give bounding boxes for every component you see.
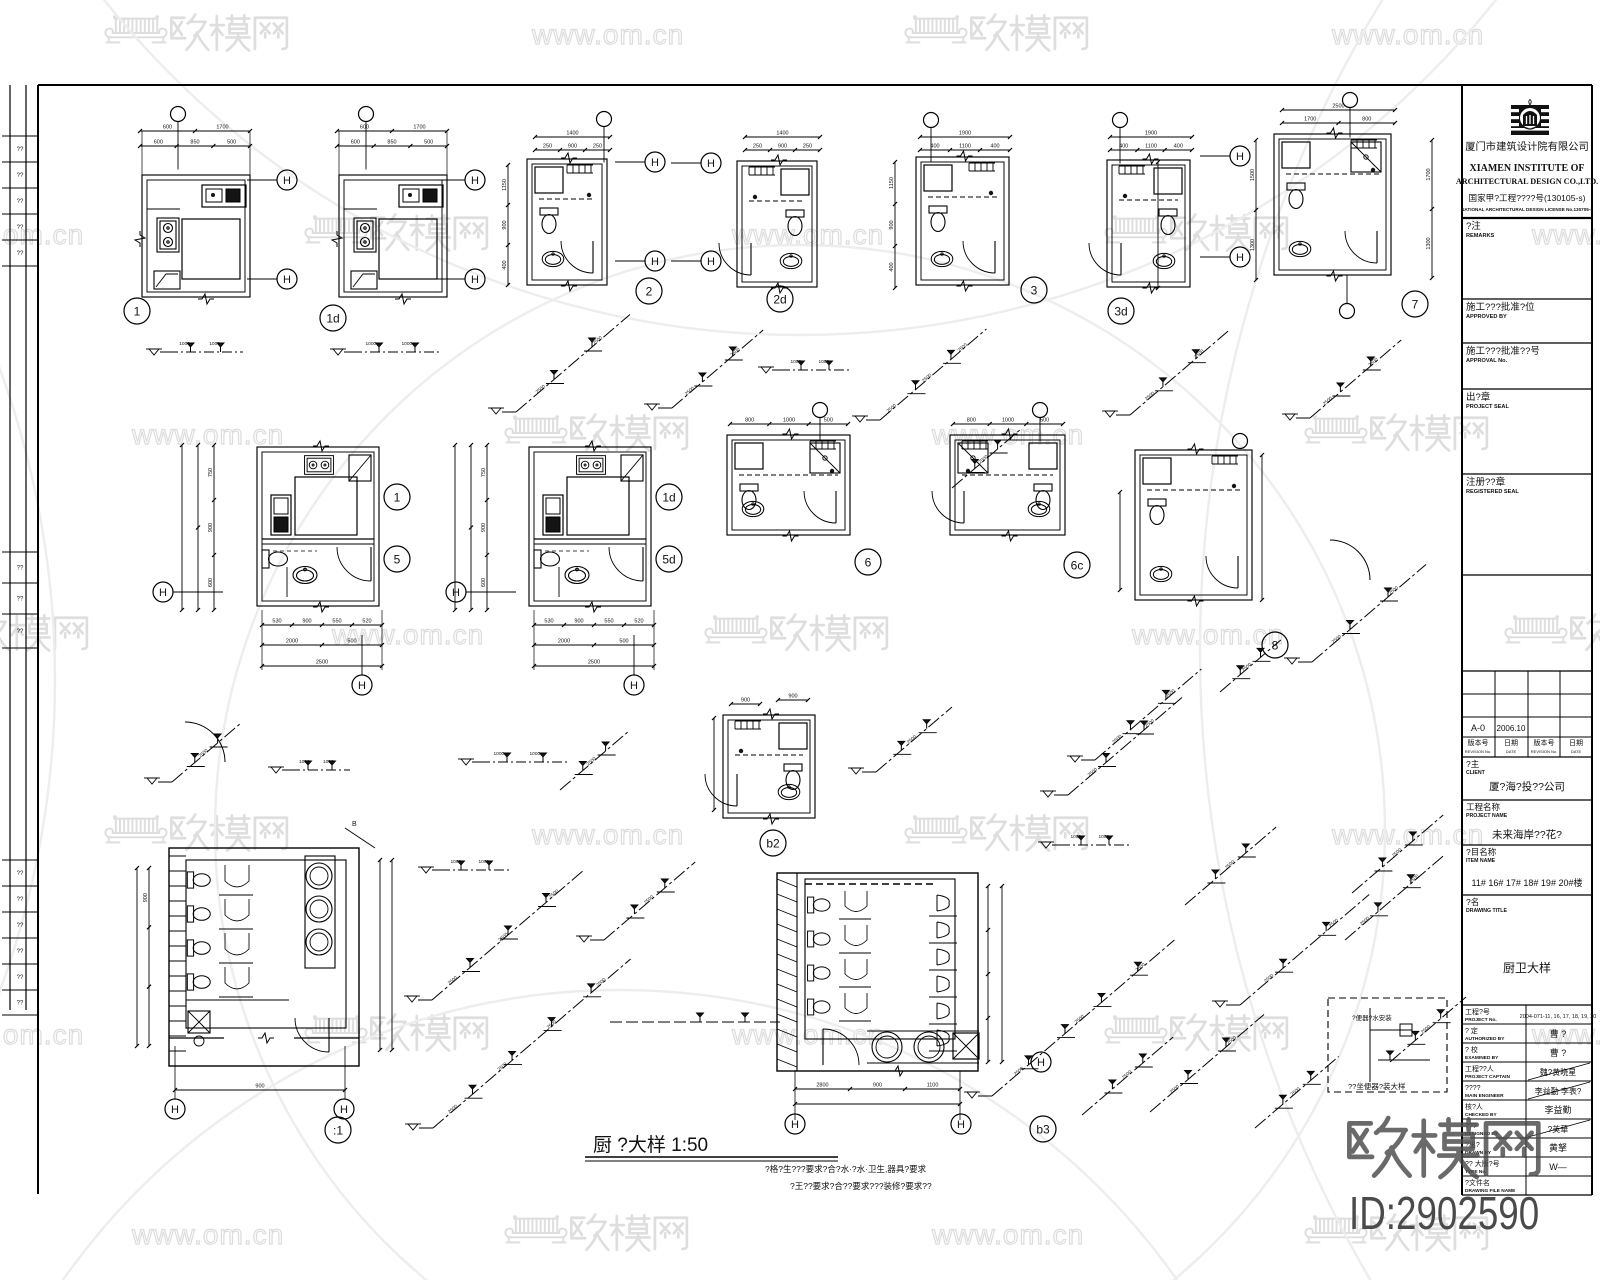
riser diagram at 1352,893	[1352, 815, 1443, 893]
svg-text:1d: 1d	[662, 491, 675, 505]
svg-text:1900: 1900	[959, 131, 971, 137]
label circle b3	[1030, 1116, 1056, 1142]
bathroom plan unit at 1274,134	[1274, 134, 1391, 275]
bathroom plan unit at 727,435	[727, 435, 850, 535]
svg-text:??: ??	[17, 173, 24, 179]
svg-text:??坐便器?装大样: ??坐便器?装大样	[1348, 1081, 1406, 1091]
svg-text:H: H	[283, 274, 291, 286]
svg-text:1000: 1000	[402, 341, 413, 347]
svg-text:H: H	[1236, 252, 1244, 264]
svg-text:400: 400	[1174, 144, 1183, 150]
svg-text:H: H	[957, 1119, 965, 1131]
riser diagram at 1068,795	[1068, 698, 1182, 796]
svg-text:900: 900	[143, 893, 149, 902]
svg-text:400: 400	[889, 262, 895, 271]
riser diagram at 1240,1005	[1240, 895, 1369, 1006]
svg-text:1000: 1000	[451, 859, 462, 865]
svg-text:APPROVED BY: APPROVED BY	[1466, 314, 1507, 320]
svg-text:900: 900	[302, 619, 311, 625]
riser diagram at 992,1096	[992, 940, 1174, 1096]
svg-text:?目名称: ?目名称	[1466, 847, 1497, 857]
svg-text:500: 500	[824, 418, 833, 424]
svg-text:XIAMEN INSTITUTE OF: XIAMEN INSTITUTE OF	[1469, 163, 1584, 174]
svg-text:900: 900	[741, 698, 750, 704]
svg-text:??: ??	[17, 597, 24, 603]
svg-text:1: 1	[134, 305, 141, 319]
svg-text:APPROVAL No.: APPROVAL No.	[1466, 358, 1508, 364]
svg-text:900: 900	[788, 694, 797, 700]
large toilet plan T1	[169, 848, 359, 1066]
svg-text:PROJECT No.: PROJECT No.	[1465, 1017, 1497, 1023]
riser diagram at 1390,1062	[1390, 997, 1466, 1062]
svg-text:??: ??	[17, 199, 24, 205]
svg-text:900: 900	[208, 523, 214, 532]
riser symbol at 440,870	[440, 869, 510, 871]
riser symbol at 1060,845	[1060, 844, 1130, 846]
svg-text:REVISION No.: REVISION No.	[1531, 749, 1557, 754]
svg-text:1000: 1000	[479, 859, 490, 865]
svg-text:600: 600	[360, 125, 369, 131]
svg-text:A-0: A-0	[1471, 723, 1485, 733]
svg-text:REGISTERED SEAL: REGISTERED SEAL	[1466, 489, 1519, 495]
svg-text:1400: 1400	[776, 131, 788, 137]
svg-text:?? 大版?号: ?? 大版?号	[1465, 1159, 1500, 1168]
svg-text:1000: 1000	[819, 359, 830, 365]
bathroom plan unit at 916,157	[916, 157, 1009, 285]
svg-text:李益勤: 李益勤	[1544, 1104, 1571, 1115]
svg-text:DATE: DATE	[1571, 749, 1582, 754]
svg-text:600: 600	[208, 578, 214, 587]
kitchen plan unit at 339,175	[339, 175, 447, 297]
combo kitchen-bath plan at 529,447	[529, 447, 651, 606]
left binding strip	[9, 85, 11, 1010]
svg-text:版本号: 版本号	[1468, 738, 1489, 747]
svg-text:1000: 1000	[179, 341, 190, 347]
big dark omwang watermark	[1349, 1118, 1538, 1177]
svg-text:b2: b2	[766, 837, 780, 851]
riser diagram at 1345,940	[1345, 856, 1444, 941]
svg-text:1000: 1000	[323, 759, 334, 765]
mid row H bubbles	[153, 582, 173, 602]
svg-text:1300: 1300	[1250, 239, 1256, 251]
svg-text:?王??要求?合??要求???装修?要求??: ?王??要求?合??要求???装修?要求??	[790, 1181, 932, 1191]
svg-text:1000: 1000	[530, 751, 541, 757]
svg-text:厨 ?大样 1:50: 厨 ?大样 1:50	[593, 1134, 708, 1156]
svg-text:1000: 1000	[366, 341, 377, 347]
svg-text:REVISION No.: REVISION No.	[1465, 749, 1491, 754]
svg-text:??: ??	[17, 975, 24, 981]
svg-text:800: 800	[967, 418, 976, 424]
svg-text:CHECKED BY: CHECKED BY	[1465, 1112, 1498, 1118]
svg-text:厦?海?投??公司: 厦?海?投??公司	[1489, 780, 1565, 793]
svg-text:b3: b3	[1036, 1123, 1050, 1137]
svg-text:1000: 1000	[1071, 834, 1082, 840]
svg-text:500: 500	[347, 639, 356, 645]
riser diagram at 1130,415	[1130, 331, 1229, 416]
svg-text:H: H	[707, 158, 715, 170]
svg-text:?注: ?注	[1466, 220, 1481, 232]
svg-text:H: H	[1037, 1057, 1045, 1069]
svg-text:H: H	[358, 680, 366, 692]
svg-text:900: 900	[889, 220, 895, 229]
svg-text:530: 530	[272, 619, 281, 625]
svg-text:2500: 2500	[1332, 104, 1344, 110]
riser symbol at 780,370	[780, 369, 850, 371]
svg-text:H: H	[340, 1104, 348, 1116]
svg-text:550: 550	[332, 619, 341, 625]
svg-text:工程??人: 工程??人	[1465, 1064, 1494, 1073]
svg-text:1500: 1500	[1250, 169, 1256, 181]
svg-text:??: ??	[17, 251, 24, 257]
svg-text:??: ??	[17, 871, 24, 877]
svg-text:??: ??	[17, 1001, 24, 1007]
svg-text:900: 900	[873, 1083, 882, 1089]
svg-text:400: 400	[990, 144, 999, 150]
riser diagram at 432,1000	[432, 870, 584, 1000]
svg-text:??: ??	[17, 225, 24, 231]
svg-text:?主: ?主	[1466, 759, 1480, 769]
svg-text:H: H	[159, 587, 167, 599]
svg-text:ITEM NAME: ITEM NAME	[1466, 858, 1496, 864]
svg-text:B: B	[352, 821, 357, 828]
svg-text:MAIN ENGINEER: MAIN ENGINEER	[1465, 1093, 1504, 1099]
svg-text:3d: 3d	[1114, 305, 1127, 319]
svg-text:??: ??	[17, 629, 24, 635]
svg-text:5d: 5d	[662, 553, 675, 567]
title block	[1461, 85, 1463, 1195]
svg-text:1150: 1150	[889, 177, 895, 189]
svg-text:??: ??	[17, 949, 24, 955]
riser symbol at 168,352	[168, 351, 243, 353]
svg-text:1900: 1900	[1145, 131, 1157, 137]
riser symbol at 290,770	[290, 769, 350, 771]
svg-text:400: 400	[502, 260, 508, 269]
riser diagram at 1185,905	[1185, 827, 1276, 905]
svg-text:250: 250	[593, 144, 602, 150]
svg-text:400: 400	[930, 144, 939, 150]
riser diagram at 1220,692	[1220, 640, 1281, 692]
svg-text:????: ????	[1465, 1085, 1481, 1092]
svg-text:REMARKS: REMARKS	[1466, 233, 1495, 239]
svg-text:H: H	[651, 157, 659, 169]
svg-text:1000: 1000	[494, 751, 505, 757]
svg-text:850: 850	[387, 140, 396, 146]
svg-text:H: H	[452, 587, 460, 599]
svg-text:900: 900	[778, 144, 787, 150]
svg-text:DATE: DATE	[1506, 749, 1517, 754]
svg-text:900: 900	[574, 619, 583, 625]
riser diagram at 1082,1115	[1082, 1037, 1173, 1115]
svg-text:2500: 2500	[588, 660, 600, 666]
svg-text:H: H	[171, 1104, 179, 1116]
svg-text:6: 6	[865, 556, 872, 570]
svg-text:3: 3	[1031, 284, 1038, 298]
dimension clusters	[140, 130, 250, 132]
svg-text:850: 850	[190, 140, 199, 146]
svg-text:1300: 1300	[1426, 237, 1432, 249]
riser diagram at 604,940	[604, 862, 695, 940]
svg-text:500: 500	[424, 140, 433, 146]
svg-text:?文件名: ?文件名	[1465, 1178, 1490, 1187]
svg-text:2800: 2800	[816, 1083, 828, 1089]
svg-text:H: H	[1236, 151, 1244, 163]
svg-text:PROJECT CAPTAIN: PROJECT CAPTAIN	[1465, 1074, 1510, 1080]
svg-text:PROJECT SEAL: PROJECT SEAL	[1466, 404, 1509, 410]
svg-text:2000: 2000	[286, 639, 298, 645]
svg-text:H: H	[471, 175, 479, 187]
svg-text:900: 900	[481, 523, 487, 532]
riser diagram at 1310,418	[1310, 340, 1401, 418]
label circle :1	[325, 1117, 351, 1143]
svg-text:1000: 1000	[209, 341, 220, 347]
svg-text:未来海岸??花?: 未来海岸??花?	[1492, 828, 1562, 841]
svg-text:11# 16# 17# 18# 19# 20#楼: 11# 16# 17# 18# 19# 20#楼	[1472, 877, 1583, 888]
svg-text:核?人: 核?人	[1465, 1102, 1483, 1111]
bathroom plan unit at 737,161	[737, 161, 817, 287]
bathroom plan unit at 950,435	[950, 435, 1065, 535]
svg-text:1400: 1400	[566, 131, 578, 137]
svg-text:1700: 1700	[413, 125, 425, 131]
svg-text:AUTHORIZED BY: AUTHORIZED BY	[1465, 1036, 1505, 1042]
svg-text:2: 2	[646, 285, 653, 299]
label circles	[124, 298, 150, 324]
bathroom plan unit at 527,159	[527, 159, 607, 285]
svg-text:2500: 2500	[316, 660, 328, 666]
svg-text:出?章: 出?章	[1466, 391, 1491, 403]
svg-text:750: 750	[481, 468, 487, 477]
svg-text:6c: 6c	[1071, 559, 1084, 573]
svg-text:1150: 1150	[502, 179, 508, 191]
riser diagram at 516,412	[516, 315, 630, 413]
svg-text:H: H	[707, 256, 715, 268]
svg-text:??: ??	[17, 897, 24, 903]
dashed detail box	[1328, 998, 1447, 1092]
svg-text::1: :1	[333, 1124, 343, 1138]
svg-text:厦门市建筑设计院有限公司: 厦门市建筑设计院有限公司	[1465, 140, 1589, 153]
bathroom plan unit at 1107,160	[1107, 160, 1190, 287]
svg-text:1000: 1000	[1002, 418, 1014, 424]
svg-text:1100: 1100	[1145, 144, 1157, 150]
svg-text:工程名称: 工程名称	[1466, 802, 1501, 812]
svg-text:1100: 1100	[959, 144, 971, 150]
bathroom plan unit at 723,715	[723, 715, 815, 818]
svg-text:黄拏: 黄拏	[1549, 1142, 1567, 1153]
riser diagram at 880,420	[880, 329, 986, 420]
svg-text:ID:2902590: ID:2902590	[1349, 1187, 1539, 1239]
svg-text:400: 400	[1119, 144, 1128, 150]
institute logo	[1511, 105, 1549, 135]
svg-text:1000: 1000	[783, 418, 795, 424]
svg-text:CLIENT: CLIENT	[1466, 770, 1486, 776]
svg-text:H: H	[791, 1119, 799, 1131]
riser diagram at 172,782	[172, 724, 240, 783]
svg-text:1100: 1100	[927, 1083, 939, 1089]
svg-text:500: 500	[619, 639, 628, 645]
sheet frame	[38, 84, 1592, 86]
svg-text:750: 750	[208, 468, 214, 477]
svg-text:1: 1	[394, 491, 401, 505]
grid bubbles	[171, 107, 186, 122]
svg-text:550: 550	[604, 619, 613, 625]
svg-text:H: H	[651, 256, 659, 268]
svg-text:H: H	[471, 274, 479, 286]
svg-text:250: 250	[543, 144, 552, 150]
svg-text:工程?号: 工程?号	[1465, 1007, 1490, 1016]
svg-text:H: H	[283, 175, 291, 187]
svg-text:900: 900	[502, 220, 508, 229]
riser diagram at 560,790	[560, 732, 628, 791]
svg-text:PROJECT NAME: PROJECT NAME	[1466, 813, 1508, 819]
svg-text:厨卫大样: 厨卫大样	[1503, 960, 1551, 975]
svg-text:520: 520	[634, 619, 643, 625]
svg-text:2000: 2000	[558, 639, 570, 645]
svg-text:曹 ?: 曹 ?	[1550, 1047, 1567, 1058]
svg-text:5: 5	[394, 553, 401, 567]
svg-text:DRAWING TITLE: DRAWING TITLE	[1466, 908, 1507, 914]
svg-text:注册??章: 注册??章	[1466, 476, 1506, 488]
svg-text:7: 7	[1412, 298, 1419, 312]
riser diagram at 1150,1112	[1150, 1015, 1264, 1113]
svg-text:??: ??	[17, 923, 24, 929]
svg-text:? 校: ? 校	[1465, 1045, 1478, 1054]
svg-text:? 定: ? 定	[1465, 1026, 1478, 1035]
svg-text:2006.10: 2006.10	[1497, 724, 1526, 733]
svg-text:250: 250	[803, 144, 812, 150]
svg-text:900: 900	[255, 1084, 264, 1090]
svg-text:500: 500	[227, 140, 236, 146]
svg-text:W—: W—	[1549, 1162, 1567, 1172]
svg-text:??: ??	[17, 147, 24, 153]
watermark giant arcs	[0, 0, 1600, 335]
kitchen plan unit at 142,175	[142, 175, 250, 297]
svg-text:1700: 1700	[1426, 168, 1432, 180]
svg-text:日期: 日期	[1569, 739, 1583, 747]
svg-text:1000: 1000	[1099, 834, 1110, 840]
svg-text:2004-071-11, 16, 17, 18, 19, 2: 2004-071-11, 16, 17, 18, 19, 20	[1520, 1014, 1597, 1020]
svg-text:600: 600	[163, 125, 172, 131]
svg-text:1000: 1000	[791, 359, 802, 365]
svg-text:曹 ?: 曹 ?	[1550, 1028, 1567, 1039]
riser diagram at 952,488	[952, 430, 1020, 489]
svg-text:800: 800	[1362, 117, 1371, 123]
svg-text:??: ??	[17, 566, 24, 572]
svg-text:施工???批准??号: 施工???批准??号	[1466, 345, 1540, 357]
svg-text:国家甲?工程????号(130105-s): 国家甲?工程????号(130105-s)	[1468, 192, 1585, 203]
svg-text:500: 500	[1040, 418, 1049, 424]
svg-text:施工???批准?位: 施工???批准?位	[1466, 301, 1535, 313]
svg-text:NATIONAL ARCHITECTURAL DESIGN: NATIONAL ARCHITECTURAL DESIGN LICENSE No…	[1461, 207, 1593, 212]
svg-text:1700: 1700	[1304, 117, 1316, 123]
svg-text:900: 900	[568, 144, 577, 150]
svg-text:?格?生???要求?合?水·?水·卫生,器具?要求: ?格?生???要求?合?水·?水·卫生,器具?要求	[765, 1164, 927, 1174]
svg-text:2d: 2d	[773, 293, 786, 307]
svg-text:600: 600	[351, 140, 360, 146]
large toilet plan T2	[777, 873, 978, 1071]
svg-text:EXAMINED BY: EXAMINED BY	[1465, 1055, 1499, 1061]
svg-text:520: 520	[362, 619, 371, 625]
svg-text:日期: 日期	[1504, 739, 1518, 747]
svg-text:8: 8	[1272, 639, 1279, 653]
svg-text:600: 600	[154, 140, 163, 146]
svg-text:ARCHITECTURAL DESIGN CO.,LTD.: ARCHITECTURAL DESIGN CO.,LTD.	[1456, 177, 1598, 186]
svg-text:250: 250	[753, 144, 762, 150]
svg-text:1000: 1000	[299, 759, 310, 765]
section circles right of plans	[277, 170, 297, 190]
svg-text:530: 530	[544, 619, 553, 625]
svg-text:H: H	[630, 680, 638, 692]
svg-text:版本号: 版本号	[1534, 738, 1555, 747]
riser symbol at 352,352	[352, 351, 442, 353]
riser diagram at 672,408	[672, 330, 763, 408]
svg-text:?名: ?名	[1466, 897, 1479, 907]
riser diagram at 433,1128	[433, 959, 631, 1128]
riser symbol at 480,762	[480, 761, 570, 763]
svg-text:800: 800	[745, 418, 754, 424]
riser diagram at 1312,662	[1312, 565, 1426, 663]
riser diagram at 876,772	[876, 707, 952, 772]
riser diagram at 1095,760	[1095, 669, 1201, 760]
svg-text:1d: 1d	[326, 312, 339, 326]
svg-text:?便器?水安装: ?便器?水安装	[1352, 1013, 1392, 1022]
riser diagram at 1255,1128	[1255, 1057, 1339, 1129]
svg-text:1700: 1700	[216, 125, 228, 131]
bathroom plan unit at 1135,450	[1135, 450, 1252, 600]
svg-text:600: 600	[481, 578, 487, 587]
combo kitchen-bath plan at 257,447	[257, 447, 379, 606]
